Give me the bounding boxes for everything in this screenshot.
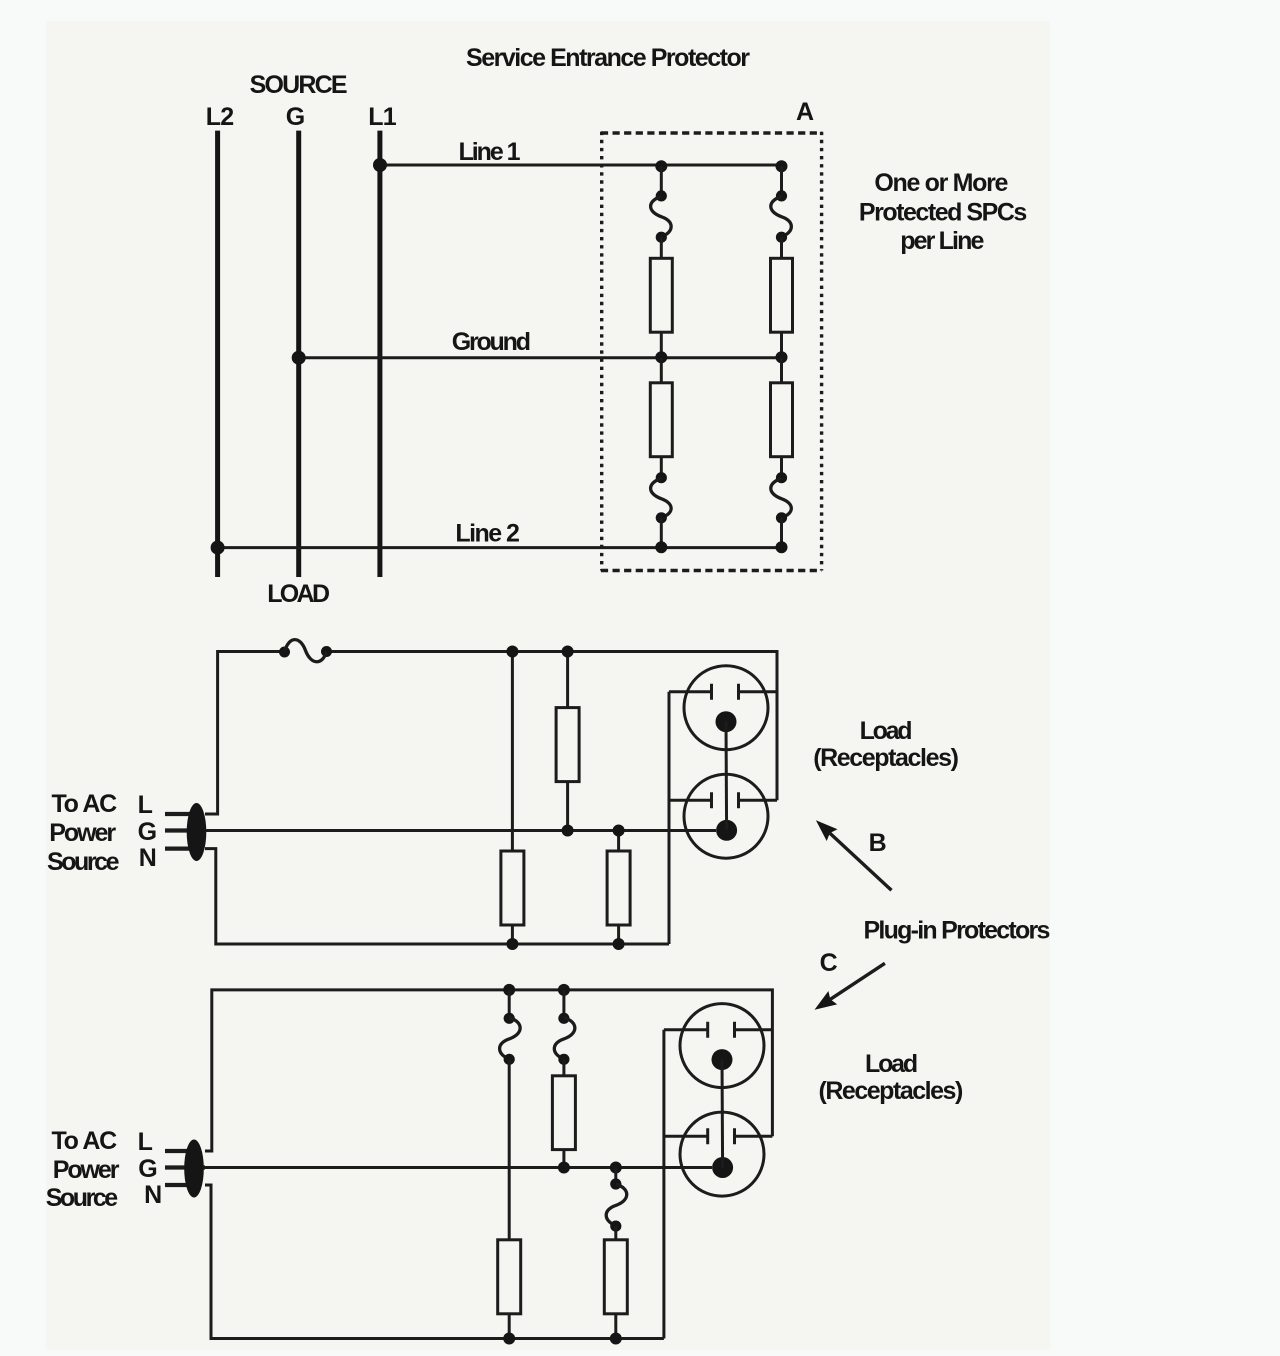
svg-text:G: G	[286, 103, 305, 131]
svg-text:per Line: per Line	[900, 227, 984, 255]
svg-text:B: B	[869, 829, 887, 857]
svg-text:Source: Source	[46, 1184, 119, 1212]
svg-text:(Receptacles): (Receptacles)	[819, 1077, 964, 1105]
svg-text:Ground: Ground	[452, 328, 531, 356]
svg-text:Power: Power	[53, 1156, 120, 1184]
svg-text:L1: L1	[368, 103, 396, 131]
svg-text:L2: L2	[206, 103, 234, 131]
svg-text:To AC: To AC	[52, 1127, 118, 1155]
svg-text:G: G	[138, 818, 157, 846]
svg-text:SOURCE: SOURCE	[250, 71, 348, 99]
svg-text:A: A	[796, 98, 814, 126]
svg-text:Load: Load	[860, 717, 913, 745]
svg-text:Line 2: Line 2	[455, 520, 520, 548]
svg-text:L: L	[138, 1128, 153, 1156]
svg-text:Line 1: Line 1	[459, 138, 521, 166]
svg-text:Protected SPCs: Protected SPCs	[859, 199, 1027, 227]
svg-text:G: G	[138, 1155, 157, 1183]
svg-text:N: N	[139, 844, 157, 872]
svg-text:Service Entrance Protector: Service Entrance Protector	[466, 44, 750, 72]
svg-text:Power: Power	[49, 819, 116, 847]
svg-text:Load: Load	[865, 1050, 918, 1078]
svg-text:LOAD: LOAD	[267, 580, 330, 608]
svg-text:To AC: To AC	[52, 790, 118, 818]
svg-text:Source: Source	[47, 848, 120, 876]
svg-text:L: L	[138, 791, 153, 819]
svg-text:(Receptacles): (Receptacles)	[813, 744, 959, 772]
svg-text:One or More: One or More	[874, 169, 1008, 197]
svg-text:N: N	[144, 1181, 162, 1209]
svg-text:Plug-in Protectors: Plug-in Protectors	[864, 917, 1051, 945]
svg-text:C: C	[820, 949, 838, 977]
